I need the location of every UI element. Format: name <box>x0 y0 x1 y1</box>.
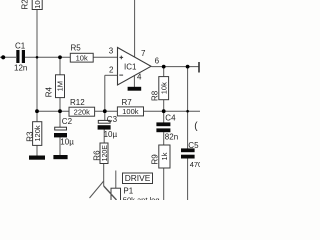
svg-text:C4: C4 <box>165 113 176 122</box>
svg-text:220k: 220k <box>74 107 91 116</box>
svg-text:10µ: 10µ <box>104 130 118 139</box>
svg-text:C1: C1 <box>15 41 26 50</box>
svg-text:DRIVE: DRIVE <box>125 173 151 183</box>
svg-text:C5: C5 <box>188 141 199 150</box>
svg-text:3: 3 <box>109 46 114 55</box>
svg-text:R8: R8 <box>150 90 159 101</box>
svg-text:82n: 82n <box>165 133 178 142</box>
svg-text:R12: R12 <box>70 98 85 107</box>
svg-text:1M: 1M <box>56 81 65 91</box>
svg-text:R4: R4 <box>44 87 53 98</box>
svg-text:100k: 100k <box>122 107 139 116</box>
svg-text:50k ant.log: 50k ant.log <box>123 196 160 200</box>
svg-text:6: 6 <box>155 57 160 66</box>
svg-text:R2: R2 <box>21 0 30 10</box>
svg-text:R7: R7 <box>122 98 133 107</box>
svg-text:2: 2 <box>109 66 114 75</box>
svg-text:IC1: IC1 <box>124 63 137 72</box>
svg-text:4: 4 <box>137 73 142 82</box>
svg-text:1k: 1k <box>160 152 169 160</box>
svg-text:R5: R5 <box>71 44 82 53</box>
svg-text:10µ: 10µ <box>60 138 74 147</box>
svg-text:470p: 470p <box>190 160 200 169</box>
svg-text:100k: 100k <box>33 0 42 9</box>
svg-text:120k: 120k <box>33 125 42 142</box>
svg-text:10k: 10k <box>76 53 88 62</box>
svg-text:C3: C3 <box>107 115 118 124</box>
svg-text:7: 7 <box>141 49 146 58</box>
svg-text:R9: R9 <box>150 154 159 165</box>
svg-text:R6: R6 <box>92 150 101 161</box>
svg-text:10k: 10k <box>159 82 168 94</box>
svg-text:12n: 12n <box>14 63 27 72</box>
svg-text:C2: C2 <box>62 117 73 126</box>
svg-text:P1: P1 <box>123 187 133 196</box>
svg-text:120E: 120E <box>102 145 109 162</box>
